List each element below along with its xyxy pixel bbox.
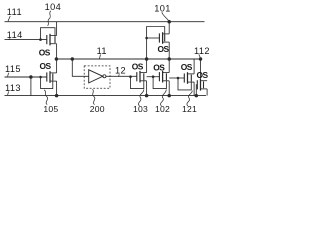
T101 source wire down to node	[168, 42, 170, 59]
svg-text:200: 200	[90, 104, 105, 114]
T121 source wire down to 113	[193, 82, 195, 96]
T122 gate riser from 113	[196, 85, 197, 96]
T104 drain wire up to 111	[56, 22, 58, 36]
transistor T102 (ref 102)	[152, 71, 169, 89]
svg-text:104: 104	[45, 2, 62, 12]
node dot 112	[199, 57, 203, 61]
transistor T122 (ref 122)	[197, 79, 207, 91]
T122 back gate bar	[203, 81, 205, 88]
svg-text:113: 113	[5, 83, 21, 93]
wire from node 11 up to T101 gate	[146, 38, 148, 59]
svg-text:103: 103	[133, 104, 148, 114]
junction dot T122 riser on 113	[195, 94, 199, 98]
svg-text:OS: OS	[40, 61, 52, 71]
svg-text:121: 121	[182, 104, 197, 114]
T105 drain wire up to node 11	[56, 59, 58, 73]
wire T102 node to T121 gate	[169, 77, 184, 79]
wire 115 down to 113 rail	[30, 77, 32, 96]
svg-text:OS: OS	[197, 70, 209, 80]
svg-text:111: 111	[7, 7, 22, 17]
transistor T103 (ref 103)	[129, 71, 146, 89]
svg-text:112: 112	[194, 46, 210, 56]
svg-text:105: 105	[43, 104, 58, 114]
wire 111 top rail	[5, 21, 205, 23]
transistor T101 (ref 101)	[145, 27, 169, 44]
svg-text:115: 115	[5, 64, 21, 74]
T104 source wire down to node 11	[56, 44, 58, 59]
wire 113 bottom rail	[5, 95, 207, 97]
T105 source wire down to 113	[56, 81, 58, 96]
T103 drain wire up to node 11	[146, 59, 148, 73]
node dot T103 drain	[145, 57, 149, 61]
junction dot T102 source on 113	[167, 94, 171, 98]
wire 114	[5, 39, 47, 41]
svg-text:OS: OS	[132, 61, 144, 71]
wire T103 node to T102 gate	[147, 76, 160, 78]
svg-text:101: 101	[154, 4, 171, 14]
wire 11 (node)	[56, 58, 201, 60]
junction dot T105 source on 113	[55, 94, 59, 98]
node dot wire11 T104/T105	[55, 57, 59, 61]
T102 drain wire up to node 11	[168, 59, 170, 73]
inverter U1 triangle	[89, 70, 103, 83]
junction dot T103 source on 113	[145, 94, 149, 98]
inverter output bubble	[103, 75, 106, 78]
junction dot on wire 115	[29, 75, 33, 79]
transistor T105 (ref 105)	[39, 71, 56, 88]
node dot T101 source / T102 drain	[167, 57, 171, 61]
svg-text:114: 114	[7, 30, 23, 40]
junction dot T101 drain on 111	[167, 20, 171, 24]
T121 drain wire up to node 11	[193, 59, 195, 74]
T102 source wire down to 113	[168, 81, 170, 96]
inverter input wire from node 11	[72, 59, 88, 76]
wire 12 (inverter output)	[106, 75, 137, 77]
svg-text:OS: OS	[153, 62, 165, 72]
T101 gate wire	[147, 37, 160, 39]
svg-text:11: 11	[97, 46, 107, 56]
node dot inverter tap	[71, 57, 75, 61]
T101 drain wire up to 111	[168, 22, 170, 34]
T103 source wire down to 113	[146, 81, 148, 96]
svg-text:OS: OS	[158, 44, 170, 54]
dashed box 200	[84, 66, 110, 88]
wire node 112 down to T122 drain	[200, 59, 202, 81]
wire 115	[5, 76, 47, 78]
svg-text:OS: OS	[181, 62, 193, 72]
svg-text:OS: OS	[39, 47, 51, 57]
T122 source wire down to 113	[206, 89, 208, 96]
svg-text:102: 102	[155, 104, 170, 114]
svg-text:12: 12	[115, 65, 126, 75]
transistor T121 (ref 121)	[177, 72, 194, 90]
transistor T104 (ref 104)	[39, 28, 56, 46]
